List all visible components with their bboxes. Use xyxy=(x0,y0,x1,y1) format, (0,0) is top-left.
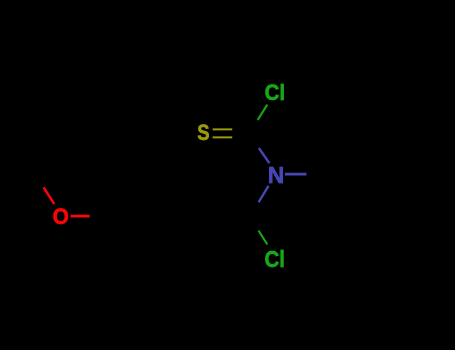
svg-text:Cl: Cl xyxy=(265,80,285,105)
svg-text:Cl: Cl xyxy=(265,246,285,272)
svg-text:S: S xyxy=(197,120,209,145)
svg-text:N: N xyxy=(268,162,285,188)
svg-text:O: O xyxy=(53,204,69,229)
